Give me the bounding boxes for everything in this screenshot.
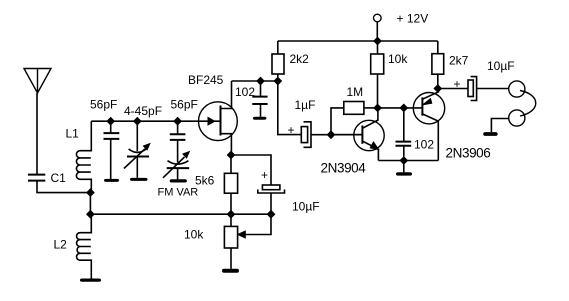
inductor L2 — [77, 214, 92, 279]
svg-text:2k2: 2k2 — [290, 52, 310, 66]
wire C8 to node L — [270, 193, 272, 214]
ground under node H — [396, 172, 412, 175]
svg-text:10µF: 10µF — [292, 200, 320, 214]
node tank-1 junction — [107, 118, 114, 125]
transistor Q1 BF245 — [199, 81, 238, 155]
node D junction — [274, 77, 281, 84]
svg-text:BF245: BF245 — [188, 73, 224, 87]
svg-text:+: + — [261, 168, 268, 182]
trimmer capacitor CT1 4-45pF — [124, 121, 150, 178]
node A junction — [87, 189, 94, 196]
svg-text:56pF: 56pF — [171, 98, 198, 112]
supply terminal — [374, 14, 382, 22]
node B junction — [87, 211, 94, 218]
transistor Q2 2N3904 — [331, 108, 384, 161]
svg-text:102: 102 — [414, 138, 434, 152]
wire antenna to C1 — [36, 93, 38, 175]
ground under earphone — [483, 132, 498, 136]
supply rail +12V — [278, 40, 438, 42]
svg-text:5k6: 5k6 — [195, 174, 215, 188]
svg-text:2N3906: 2N3906 — [446, 146, 491, 161]
wire tank top rail — [91, 120, 220, 122]
wire C5 to base Q2 — [311, 134, 362, 136]
resistor R1 2k2 — [272, 41, 284, 81]
wire node F to base Q3 — [378, 107, 423, 109]
node J junction source — [227, 151, 234, 158]
wire emitter ground line — [378, 160, 438, 162]
capacitor C5 1uF — [301, 122, 311, 148]
ground under L2 — [80, 279, 101, 282]
wire node D to C5 — [278, 81, 302, 135]
node K junction — [227, 211, 234, 218]
wire source to C8 — [231, 155, 271, 185]
capacitor C8 10uF — [258, 185, 285, 193]
node H junction — [400, 157, 407, 164]
transistor Q3 2N3906 — [413, 89, 444, 161]
wire node A to node B — [89, 193, 91, 215]
ground under C4 — [253, 117, 267, 120]
varicap D1 FM VAR — [163, 152, 189, 180]
node F junction — [374, 104, 381, 111]
svg-text:L1: L1 — [66, 127, 80, 141]
antenna AE1 — [24, 69, 51, 94]
node rail junction — [374, 37, 381, 44]
svg-text:+: + — [288, 123, 295, 137]
node L junction — [267, 211, 274, 218]
svg-text:L2: L2 — [54, 238, 68, 252]
earphone P1 — [509, 81, 536, 126]
wire supply terminal to rail — [376, 22, 378, 41]
svg-text:4-45pF: 4-45pF — [124, 104, 162, 118]
svg-text:10k: 10k — [184, 228, 204, 242]
svg-text:2k7: 2k7 — [449, 54, 469, 68]
svg-text:10µF: 10µF — [487, 59, 515, 73]
node E junction — [327, 131, 334, 138]
potentiometer RV1 10k — [224, 226, 237, 268]
svg-text:2N3904: 2N3904 — [321, 161, 367, 176]
resistor R2 10k — [371, 41, 384, 108]
capacitor C7 10uF — [468, 77, 477, 101]
wire R4 to node F — [364, 107, 378, 109]
svg-text:+: + — [454, 77, 461, 91]
capacitor C6 102 — [396, 108, 412, 161]
inductor L1 — [76, 121, 91, 192]
wire node H to ground — [403, 161, 405, 173]
node tank-2 junction — [134, 118, 141, 125]
capacitor C2 56pF — [104, 121, 120, 179]
wire ground rail — [90, 213, 271, 215]
svg-text:+ 12V: + 12V — [397, 12, 429, 26]
wire C7 to earphone — [477, 88, 509, 90]
wire node I to C7 — [438, 88, 468, 90]
node tank-3 junction — [174, 118, 181, 125]
resistor R3 2k7 — [432, 41, 444, 89]
ground under C2 — [104, 179, 119, 182]
svg-text:C1: C1 — [51, 171, 67, 185]
node C junction — [257, 77, 264, 84]
wire node L to wiper — [243, 214, 271, 234]
resistor R4 1M — [344, 102, 364, 115]
svg-text:1M: 1M — [347, 85, 364, 99]
wire C1 to node A — [37, 181, 90, 193]
svg-text:1µF: 1µF — [295, 98, 316, 112]
capacitor C1 — [28, 175, 45, 181]
capacitor C3 56pF — [170, 121, 186, 162]
node I junction — [434, 85, 441, 92]
svg-text:56pF: 56pF — [90, 98, 117, 112]
svg-text:10k: 10k — [388, 52, 408, 66]
capacitor C4 102 — [252, 81, 267, 117]
svg-text:102: 102 — [235, 85, 255, 99]
wire earphone to ground — [491, 119, 508, 133]
ground under CT1 — [130, 178, 148, 181]
wire node E to R4 — [331, 108, 344, 135]
wire drain node — [232, 80, 278, 82]
wiper arrow RV1 — [238, 231, 246, 238]
node G junction — [400, 104, 407, 111]
svg-text:FM VAR: FM VAR — [158, 187, 199, 199]
ground under D1 — [170, 179, 187, 182]
resistor R5 5k6 — [224, 155, 237, 226]
ground under RV1 — [222, 269, 239, 273]
